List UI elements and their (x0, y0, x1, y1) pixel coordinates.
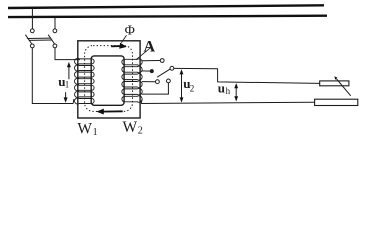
switch S1 top contact pole 1 (30, 29, 34, 33)
switch S1 bottom contact pole 2 (53, 44, 57, 48)
flux arrow top (111, 43, 127, 49)
winding W2 (6 turns) (122, 59, 142, 102)
load resistor R2 body (315, 99, 358, 105)
selector blade (157, 69, 170, 77)
tap 3 terminal (156, 80, 160, 84)
svg-text:h: h (226, 86, 231, 96)
switch S1 bottom contact pole 1 (30, 44, 34, 48)
u1 down arrow (65, 92, 67, 99)
svg-text:Φ: Φ (125, 23, 135, 38)
wire from L2 to switch pole 2 (54, 17, 56, 29)
output wire top (174, 68, 320, 83)
uh arrow (235, 85, 237, 99)
bus bar L2 (8, 16, 327, 17)
tap 2 contact dot (150, 70, 153, 73)
switch S1 tie bar (27, 37, 50, 39)
transformer core window (91, 56, 124, 105)
svg-text:W: W (123, 119, 138, 136)
flux arrow bottom (96, 109, 123, 115)
u1 up arrow (68, 65, 70, 80)
rheostat R1 body (320, 81, 349, 86)
svg-text:u: u (218, 80, 225, 95)
switch S1 top contact pole 2 (53, 29, 57, 33)
A pointer (136, 47, 151, 60)
flux path dashed loop (85, 46, 133, 112)
svg-text:1: 1 (93, 127, 98, 137)
winding W1 (7 turns) (75, 58, 95, 104)
W2 bottom lead (140, 99, 143, 103)
output wire bottom (141, 102, 314, 103)
switch S1 blade pole 1 (25, 35, 31, 44)
wire from L1 to switch pole 1 (31, 8, 33, 29)
W2 bottom terminal (167, 79, 171, 83)
tap 3 wire (142, 81, 155, 83)
svg-text:A: A (144, 38, 156, 55)
rheostat R1 wiper arrow (337, 79, 351, 96)
wire W2 bottom terminal to winding (142, 83, 169, 94)
transformer core outer (78, 41, 140, 118)
svg-text:2: 2 (190, 83, 195, 93)
switch S1 blade pole 2 (48, 35, 54, 44)
bus bar L1 (8, 5, 324, 8)
wire riser to W1 bottom (72, 99, 75, 104)
svg-text:2: 2 (138, 126, 143, 137)
u2 arrow (181, 71, 183, 100)
wire pole2 to W1 top (55, 48, 80, 60)
tap 1 terminal (160, 59, 164, 63)
Phi pointer (121, 35, 126, 43)
selector pivot terminal (170, 66, 174, 70)
tap 2 wire (142, 70, 150, 72)
svg-text:W: W (77, 120, 92, 137)
wire pole1 down (32, 48, 73, 104)
tap 1 wire (terminal A) (142, 60, 161, 62)
svg-text:1: 1 (65, 79, 70, 89)
